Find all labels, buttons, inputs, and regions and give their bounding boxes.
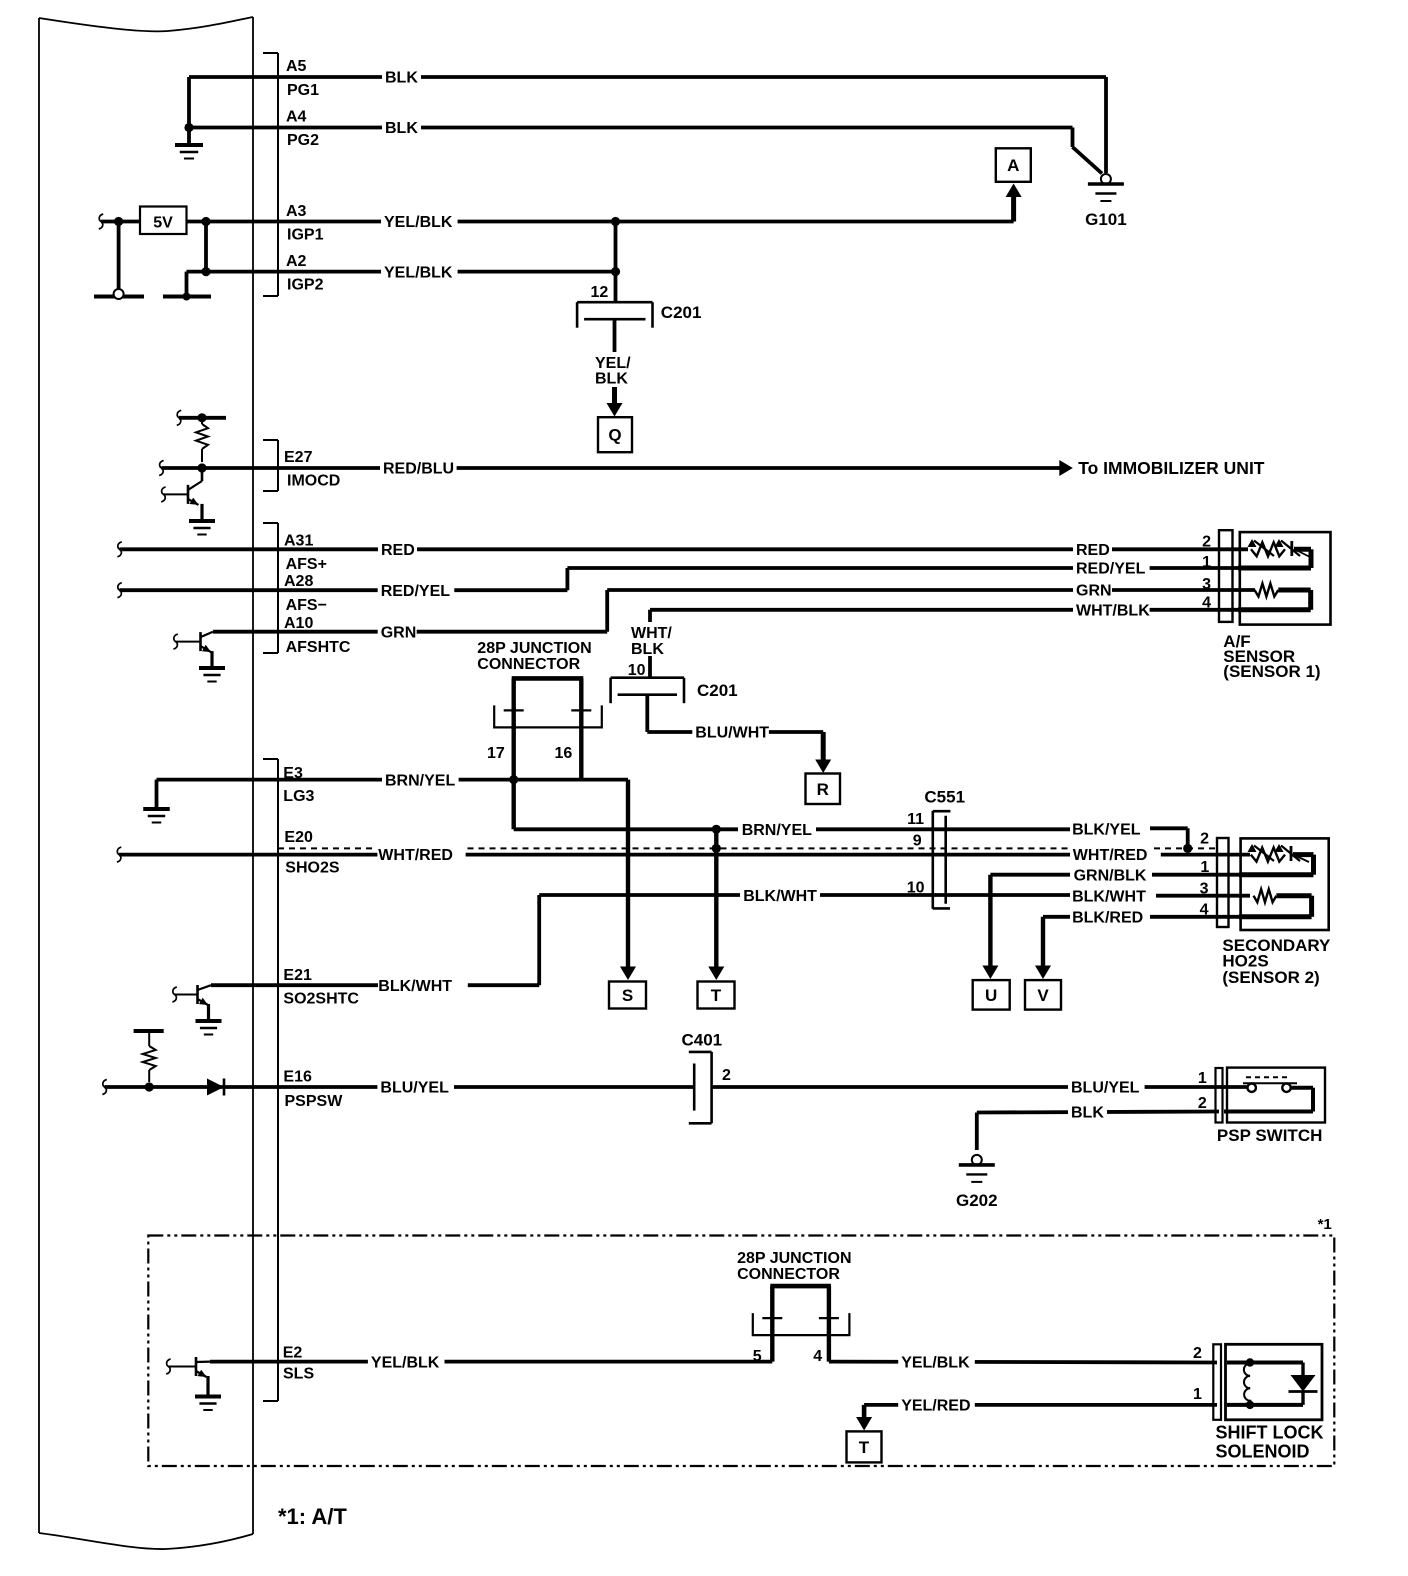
svg-text:4: 4 [1200, 902, 1209, 919]
svg-text:2: 2 [1202, 534, 1211, 551]
secondary HO2S body box [1241, 838, 1329, 930]
wire BLK/WHT row to C551 pin10 [539, 893, 740, 897]
svg-text:A4: A4 [286, 109, 307, 126]
svg-text:BLU/WHT: BLU/WHT [695, 725, 769, 742]
svg-text:RED/YEL: RED/YEL [381, 583, 451, 600]
svg-text:BRN/YEL: BRN/YEL [742, 822, 812, 839]
wire drop to S [626, 780, 630, 967]
wire junction pin 17 drop [512, 678, 516, 829]
connector bar sensor 1 [1219, 530, 1233, 622]
junction A3 internal [201, 217, 210, 226]
junction A2 to C201 [611, 267, 620, 276]
transistor SLS driver emitter ground [195, 1395, 221, 1399]
svg-text:RED/YEL: RED/YEL [1076, 561, 1146, 578]
svg-text:E16: E16 [283, 1069, 312, 1086]
connector C401 [710, 1052, 713, 1123]
svg-text:12: 12 [591, 284, 609, 301]
arrow to immobilizer unit [1059, 460, 1073, 476]
svg-text:BLK: BLK [595, 371, 628, 388]
wire label YEL/BLK (mid) [898, 1353, 975, 1371]
ground PG internal [175, 143, 203, 147]
wire junction pin 16 drop [579, 678, 583, 779]
wire PG1/PG2 internal ground link [189, 75, 278, 79]
junction E27 wire [197, 463, 206, 472]
wire BLK/YEL elbow to shield [1186, 828, 1190, 846]
wire E3 ground drop [155, 780, 159, 809]
svg-text:U: U [985, 986, 997, 1005]
wire label BLK (G202) [1068, 1103, 1107, 1121]
transistor AFSHTC driver emitter ground [199, 666, 225, 670]
svg-text:PSP SWITCH: PSP SWITCH [1217, 1126, 1322, 1145]
arrow to R [821, 732, 826, 761]
svg-text:BLK/WHT: BLK/WHT [743, 888, 817, 905]
svg-text:E27: E27 [284, 449, 313, 466]
svg-text:28P JUNCTION: 28P JUNCTION [737, 1250, 851, 1267]
svg-text:RED/BLU: RED/BLU [383, 461, 454, 478]
svg-text:YEL/BLK: YEL/BLK [371, 1354, 440, 1371]
junction T branch on BRN/YEL [712, 825, 721, 834]
svg-text:(SENSOR 2): (SENSOR 2) [1222, 968, 1319, 987]
svg-text:BLK/WHT: BLK/WHT [378, 978, 452, 995]
transistor AFSHTC driver [199, 632, 202, 651]
svg-text:SO2SHTC: SO2SHTC [283, 991, 359, 1008]
svg-text:SOLENOID: SOLENOID [1216, 1442, 1310, 1462]
svg-text:A28: A28 [284, 573, 313, 590]
wire A3-A2 internal link [204, 222, 208, 272]
wire label RED/YEL (left) [378, 581, 455, 599]
HO2S heater resistor [1254, 889, 1277, 902]
ground open-circle bar (5V) [94, 295, 144, 299]
wire WHT/BLK sensor1 pin4 from C201 [650, 608, 1248, 612]
svg-text:GRN: GRN [381, 624, 417, 641]
svg-text:2: 2 [1193, 1345, 1202, 1362]
solenoid flyback diode [1301, 1363, 1304, 1376]
wire junction pin 5 drop [770, 1286, 774, 1362]
svg-text:YEL/BLK: YEL/BLK [384, 214, 453, 231]
wire label YEL/BLK (A2) [381, 263, 458, 281]
ground G202 symbol [972, 1155, 982, 1165]
wire label RED/YEL (right) [1073, 559, 1150, 577]
wire drop to V [1041, 917, 1045, 966]
connector bar shift lock solenoid [1213, 1344, 1221, 1420]
svg-text:(SENSOR 1): (SENSOR 1) [1223, 662, 1320, 681]
svg-text:C401: C401 [682, 1030, 723, 1049]
diode on E16 wire [207, 1079, 224, 1096]
solenoid coil [1246, 1358, 1254, 1366]
wire label RED/BLU [380, 459, 457, 477]
svg-text:GRN/BLK: GRN/BLK [1074, 868, 1147, 885]
arrow to Q [612, 387, 617, 404]
wire YEL/RED from solenoid pin1 [864, 1403, 1217, 1407]
ground LG3 internal [143, 807, 170, 811]
svg-text:C201: C201 [661, 303, 702, 322]
wire sensor1 heater return [1278, 588, 1310, 593]
connector C551 [931, 811, 934, 909]
wire BLU/WHT from C201 to R [645, 695, 649, 733]
connector C201 (pin 10) [611, 676, 684, 679]
svg-text:17: 17 [487, 745, 505, 762]
svg-text:E20: E20 [284, 829, 313, 846]
svg-text:1: 1 [1200, 859, 1209, 876]
resistor E27 pull-up [201, 418, 203, 424]
wire drop to T [714, 829, 718, 967]
svg-text:BLU/YEL: BLU/YEL [380, 1080, 449, 1097]
svg-text:28P JUNCTION: 28P JUNCTION [477, 640, 591, 657]
junction A2 internal [201, 267, 210, 276]
wire label WHT/ BLK vertical (C201) [628, 622, 664, 656]
wire junction pin 4 drop [827, 1286, 831, 1362]
destination box T [698, 982, 735, 1009]
svg-text:4: 4 [813, 1348, 822, 1365]
destination box S [609, 982, 646, 1009]
svg-text:IGP1: IGP1 [287, 227, 324, 244]
svg-text:*1: *1 [1318, 1216, 1332, 1233]
svg-text:C551: C551 [924, 788, 965, 807]
svg-text:2: 2 [1200, 831, 1209, 848]
ECM module outline (torn-edge box) [39, 17, 253, 31]
wire E2 YEL/BLK [210, 1360, 772, 1364]
A/F sensor body box [1240, 532, 1331, 625]
wire A4 BLK to G101 [278, 126, 1073, 130]
wire PSP internal return [1291, 1086, 1313, 1090]
junction T branch on shield [712, 844, 721, 853]
transistor SO2SHTC driver [196, 985, 199, 1004]
connector C201 (pin 12) [577, 301, 652, 304]
wire label WHT/RED (right) [1071, 845, 1153, 862]
wire sensor2 heater return [1276, 893, 1311, 898]
wire label GRN (left) [378, 623, 417, 641]
ground G101 symbol [1101, 174, 1111, 184]
junction E3 / junction-connector pin17 [509, 775, 518, 784]
transistor IMOCD driver [187, 485, 190, 504]
svg-text:BLK/WHT: BLK/WHT [1072, 889, 1146, 906]
destination box U [973, 980, 1010, 1010]
wire label RED (left) [378, 540, 417, 558]
connector bar PSP switch [1216, 1068, 1223, 1123]
svg-text:BLU/YEL: BLU/YEL [1071, 1080, 1140, 1097]
svg-text:IGP2: IGP2 [287, 277, 324, 294]
HO2S sensor element (zigzag with arrows) [1251, 848, 1285, 862]
wire 5V input ground drop [117, 222, 121, 292]
svg-text:T: T [711, 986, 722, 1005]
wire A2 YEL/BLK [187, 270, 616, 274]
svg-text:IMOCD: IMOCD [287, 473, 340, 490]
svg-text:A5: A5 [286, 58, 307, 75]
svg-text:PG1: PG1 [287, 82, 319, 99]
wire solenoid top [1227, 1361, 1303, 1365]
svg-text:3: 3 [1200, 881, 1209, 898]
svg-text:WHT/BLK: WHT/BLK [1076, 603, 1150, 620]
svg-text:SHO2S: SHO2S [285, 860, 340, 877]
wire label BLU/YEL (left) [377, 1078, 454, 1096]
svg-text:YEL/BLK: YEL/BLK [384, 264, 453, 281]
wire A3 up-arrow to A [1011, 197, 1016, 222]
A/T option dash-dot box [148, 1236, 1334, 1467]
destination box A [996, 148, 1031, 182]
svg-text:PSPSW: PSPSW [285, 1093, 344, 1110]
transistor SO2SHTC driver emitter ground [196, 1019, 222, 1023]
svg-text:3: 3 [1202, 576, 1211, 593]
svg-text:WHT/RED: WHT/RED [1073, 847, 1148, 864]
wire solenoid bottom [1227, 1403, 1303, 1407]
PSP switch contacts [1243, 1082, 1297, 1084]
svg-text:A10: A10 [284, 615, 313, 632]
svg-text:1: 1 [1202, 554, 1211, 571]
wire E20 WHT/RED solid [117, 847, 121, 862]
svg-text:AFS−: AFS− [286, 597, 327, 614]
wire YEL/BLK to shift lock solenoid [829, 1360, 1217, 1365]
svg-text:WHT/RED: WHT/RED [378, 847, 453, 864]
A/F sensor heater resistor [1255, 584, 1279, 597]
svg-text:CONNECTOR: CONNECTOR [737, 1266, 840, 1283]
junction E16 resistor [145, 1082, 154, 1091]
svg-text:R: R [817, 780, 829, 799]
regulator 5V box [140, 207, 187, 235]
wire 5V input [99, 214, 103, 229]
junction A3 to C201 [611, 217, 620, 226]
wire BRN/YEL row (pin17 to C551 pin11) [514, 827, 738, 831]
wire GRN/BLK sensor2 pin1 [990, 873, 1070, 877]
svg-text:RED: RED [1076, 542, 1110, 559]
wire E21 BLK/WHT [211, 983, 378, 987]
wire drop to C201 pin 12 [614, 222, 618, 303]
destination box T (bottom) [847, 1431, 882, 1462]
svg-text:S: S [622, 986, 633, 1005]
svg-text:4: 4 [1202, 595, 1211, 612]
wire A31 RED to sensor1 pin2 [117, 542, 121, 557]
wire E3 BRN/YEL [157, 778, 629, 782]
wire E16 BLU/YEL [102, 1080, 106, 1095]
svg-text:1: 1 [1193, 1386, 1202, 1403]
svg-text:*1: A/T: *1: A/T [278, 1504, 347, 1529]
destination box R [806, 774, 841, 805]
ECM connector bracket A5-A2 [277, 53, 279, 296]
destination box V [1025, 980, 1061, 1010]
svg-text:AFSHTC: AFSHTC [286, 639, 351, 656]
svg-text:G202: G202 [956, 1191, 998, 1210]
svg-text:V: V [1037, 986, 1049, 1005]
svg-text:BLK: BLK [385, 120, 418, 137]
svg-text:GRN: GRN [1076, 583, 1112, 600]
wire label BRN/YEL (E3) [382, 771, 459, 789]
junction resistor top [197, 413, 206, 422]
svg-text:AFS+: AFS+ [286, 556, 327, 573]
svg-text:9: 9 [913, 833, 922, 850]
wire sensor2 element return [1293, 852, 1314, 857]
ECM connector bracket E3-E2 [277, 759, 279, 1401]
svg-text:BLK/RED: BLK/RED [1072, 910, 1143, 927]
svg-text:5V: 5V [153, 215, 173, 232]
ECM connector bracket E27 [277, 440, 279, 491]
svg-text:WHT/: WHT/ [631, 625, 672, 642]
svg-text:A3: A3 [286, 203, 307, 220]
junction 5V input [114, 217, 123, 226]
wire BLU/YEL to PSP switch [712, 1085, 1248, 1089]
wire label BLU/WHT [692, 723, 769, 741]
svg-text:To IMMOBILIZER UNIT: To IMMOBILIZER UNIT [1078, 458, 1265, 478]
wire A3 YEL/BLK [187, 220, 1014, 224]
shift lock solenoid body box [1226, 1344, 1323, 1420]
svg-text:T: T [859, 1438, 870, 1457]
svg-text:C201: C201 [697, 681, 738, 700]
svg-text:E2: E2 [283, 1345, 303, 1362]
svg-text:PG2: PG2 [287, 132, 319, 149]
svg-text:YEL/RED: YEL/RED [901, 1398, 970, 1415]
wire drop to U [988, 875, 992, 966]
wire E20 shield dashed [278, 847, 375, 849]
svg-text:2: 2 [1198, 1095, 1207, 1112]
svg-text:BLK/YEL: BLK/YEL [1072, 822, 1141, 839]
svg-text:16: 16 [555, 745, 573, 762]
svg-text:Q: Q [608, 426, 621, 445]
destination box Q [598, 417, 632, 452]
wire label BLK (A5) [382, 68, 421, 86]
svg-text:BLK: BLK [1071, 1105, 1104, 1122]
connector bar sensor 2 [1217, 838, 1229, 927]
svg-text:BLK: BLK [631, 641, 664, 658]
transistor IMOCD driver emitter ground [189, 519, 215, 523]
svg-text:1: 1 [1198, 1070, 1207, 1087]
wire BLK from PSP switch to G202 [977, 1112, 1219, 1113]
wire sensor1 element return [1294, 547, 1311, 552]
svg-text:A31: A31 [284, 533, 313, 550]
resistor E16 pull-up [134, 1029, 164, 1033]
wire A2 left ground drop [185, 272, 189, 295]
svg-text:LG3: LG3 [283, 788, 314, 805]
wire label RED (right) [1073, 540, 1112, 558]
28P junction connector (bottom) [770, 1284, 831, 1289]
wire A28 RED/YEL to sensor1 pin1 [117, 583, 121, 598]
ground bar (A2) [163, 295, 211, 299]
svg-text:SHIFT LOCK: SHIFT LOCK [1216, 1423, 1324, 1443]
svg-text:2: 2 [722, 1067, 731, 1084]
wire A10 GRN to sensor1 pin3 [213, 630, 607, 634]
svg-text:CONNECTOR: CONNECTOR [477, 656, 580, 673]
wire label YEL/BLK (A3) [381, 213, 458, 231]
wire label BLU/YEL (right) [1068, 1078, 1145, 1096]
svg-text:E21: E21 [283, 967, 312, 984]
wire A5 BLK to G101 [278, 75, 1106, 79]
svg-text:RED: RED [381, 542, 415, 559]
junction PG1/PG2 [184, 123, 193, 132]
wire E27 pull-up top [177, 410, 181, 425]
wire label YEL/BLK (E2) [368, 1353, 445, 1371]
wire label WHT/BLK (right) [1073, 601, 1150, 619]
wire collector drop E27 [201, 468, 204, 481]
wire label YEL/RED [898, 1396, 975, 1414]
svg-text:A: A [1007, 156, 1019, 175]
arrow to T (bottom) [862, 1405, 867, 1418]
svg-text:A2: A2 [286, 253, 307, 270]
wire label BLK (A4) [382, 119, 421, 137]
svg-text:G101: G101 [1085, 210, 1127, 229]
svg-text:YEL/BLK: YEL/BLK [901, 1355, 970, 1372]
svg-text:BLK: BLK [385, 70, 418, 87]
A/F sensor element (zigzag with arrows) [1251, 542, 1285, 556]
transistor SLS driver [195, 1357, 198, 1376]
svg-text:SLS: SLS [283, 1366, 314, 1383]
svg-text:11: 11 [907, 811, 924, 828]
svg-text:YEL/: YEL/ [595, 355, 631, 372]
wire BLK/RED sensor2 pin4 [1043, 915, 1070, 919]
svg-text:10: 10 [907, 879, 925, 896]
PSP switch body box [1227, 1068, 1325, 1123]
svg-text:BRN/YEL: BRN/YEL [385, 772, 455, 789]
28P junction connector (top) [512, 676, 584, 681]
wire E27 RED/BLU to immobilizer [159, 461, 163, 476]
junction BLK/YEL on shield [1183, 844, 1192, 853]
wire YEL/BLK below C201 [613, 319, 617, 352]
wire label GRN (right) [1073, 581, 1112, 599]
svg-text:5: 5 [753, 1348, 762, 1365]
ECM connector bracket A31-A10 [277, 523, 279, 653]
